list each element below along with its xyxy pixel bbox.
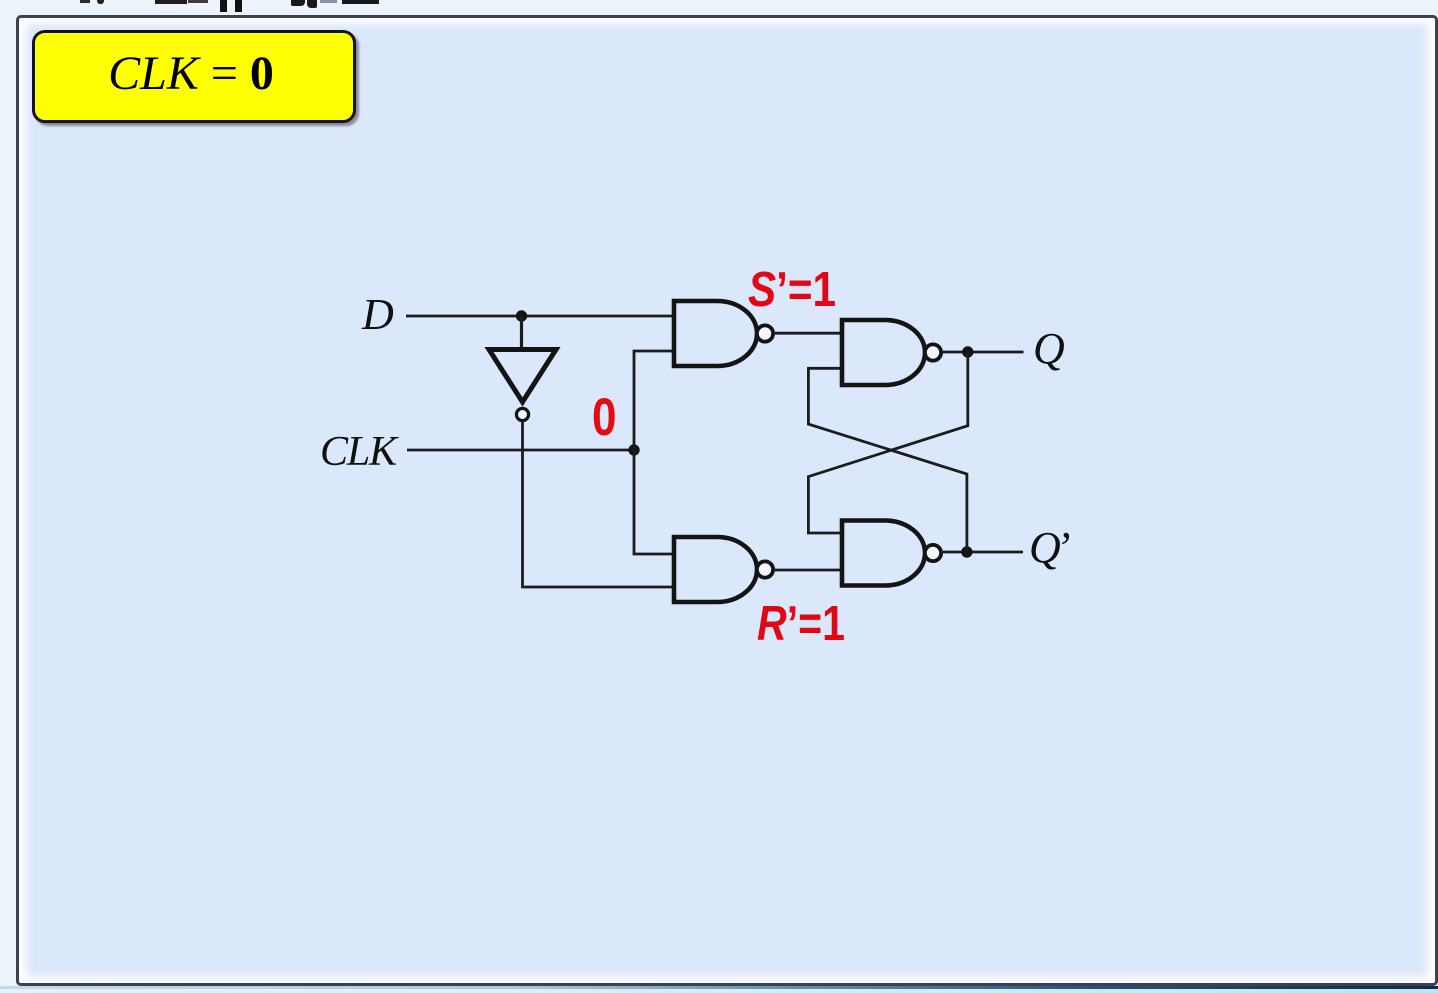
- node Q' junction: [961, 546, 972, 557]
- wire U4 output to Q': [943, 551, 1023, 554]
- wire D to inverter input: [520, 316, 523, 348]
- wire inverter output to gate U2 lower input: [523, 421, 673, 587]
- svg-text:Q: Q: [1033, 324, 1065, 373]
- nand gate U2 bubble: [757, 561, 773, 577]
- clipped title text fragment: stroke E: [235, 0, 242, 12]
- yellow callout text: [32, 30, 350, 117]
- node D junction: [516, 310, 527, 321]
- nand gate U1 bubble: [757, 325, 773, 341]
- wire CLK branch to U1 and U2: [634, 351, 672, 554]
- node CLK junction: [628, 444, 639, 455]
- inverter U5 output bubble: [516, 408, 528, 420]
- clipped title text fragment: bar A: [80, 0, 90, 3]
- yellow callout CLK = 0: [32, 30, 356, 123]
- nand gate U4 bubble: [925, 545, 941, 561]
- nand gate U2 body: [674, 537, 757, 602]
- clipped title text fragment: blob B: [97, 0, 104, 4]
- svg-text:D: D: [361, 290, 394, 339]
- nand gate U3 bubble: [925, 344, 941, 360]
- svg-text:Q’: Q’: [1029, 523, 1070, 572]
- nand gate U3 body: [842, 320, 925, 385]
- clipped title text fragment: blob F2: [307, 0, 317, 8]
- nand gate U1 body: [674, 301, 757, 366]
- clipped title text fragment: bar C2: [188, 0, 208, 3]
- bottom band light strip: [0, 989, 1438, 993]
- clipped title text fragment: stroke D: [220, 0, 227, 12]
- wire U3 output to Q: [943, 351, 1024, 354]
- clipped title text fragment: bar C: [155, 0, 187, 4]
- bottom band dark gradient line: [0, 986, 1438, 989]
- wire D input: [406, 315, 672, 318]
- wire CLK input: [407, 449, 634, 452]
- clipped title text fragment: bar G: [342, 0, 379, 4]
- wire U1 output to U3: [775, 332, 843, 335]
- wire cross-couple Q' to U3 lower input: [808, 368, 967, 552]
- nand gate U4 body: [842, 521, 925, 586]
- clipped title text fragment: faint F3: [320, 0, 337, 3]
- svg-text:R’=1: R’=1: [757, 597, 845, 651]
- svg-text:S’=1: S’=1: [748, 263, 836, 317]
- svg-text:0: 0: [592, 388, 617, 447]
- node Q junction: [962, 346, 973, 357]
- clipped title text fragment: blob F1: [291, 0, 305, 6]
- svg-text:CLK: CLK: [320, 429, 399, 475]
- inverter U5 triangle: [489, 350, 556, 403]
- wire U2 output to U4: [775, 569, 843, 572]
- wire cross-couple Q to U4 upper input: [808, 352, 967, 533]
